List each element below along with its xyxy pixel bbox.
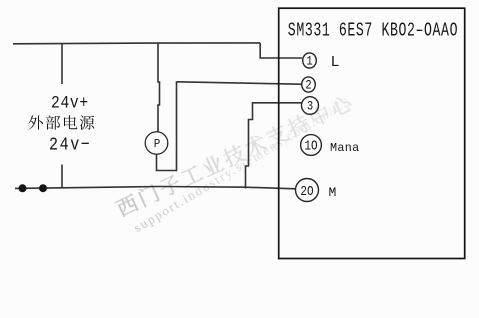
wire to terminal 3: [246, 103, 302, 189]
terminal 20: [296, 179, 319, 202]
wire drop to terminal 1: [260, 43, 302, 58]
wire bottom 24v- rail: [15, 187, 296, 189]
svg-text:L: L: [331, 54, 340, 71]
terminal 1: [303, 53, 317, 69]
svg-text:24v−: 24v−: [49, 135, 91, 156]
svg-text:1O: 1O: [304, 138, 317, 153]
svg-text:2O: 2O: [300, 184, 313, 199]
wire top +24V rail: [13, 42, 260, 45]
svg-text:3: 3: [307, 99, 313, 114]
wire P bottom to terminal 2 riser: [157, 82, 179, 171]
transmitter P: [145, 132, 168, 155]
wire left vertical upper (24v source): [61, 44, 63, 85]
wire left vertical lower: [61, 165, 63, 189]
svg-text:SM331 6ES7 KBO2–OAAO: SM331 6ES7 KBO2–OAAO: [288, 20, 458, 42]
svg-text:2: 2: [305, 78, 311, 93]
terminal 2: [302, 77, 316, 93]
junction dot A: [19, 184, 27, 192]
wire to terminal 2: [177, 82, 301, 84]
terminal 3: [302, 97, 319, 115]
svg-text:P: P: [154, 137, 161, 151]
wire P branch vertical: [158, 43, 160, 131]
svg-text:Mana: Mana: [330, 141, 360, 155]
module box SM331: [279, 8, 465, 258]
svg-text:24v+: 24v+: [51, 93, 89, 112]
junction dot B: [39, 184, 47, 192]
svg-text:support.industry.siemens.com.c: support.industry.siemens.com.cn/CS: [131, 93, 354, 235]
svg-text:M: M: [329, 185, 337, 200]
label 外部电源 (external power supply): [28, 115, 94, 130]
terminal 10: [301, 135, 322, 156]
svg-text:1: 1: [306, 54, 312, 69]
